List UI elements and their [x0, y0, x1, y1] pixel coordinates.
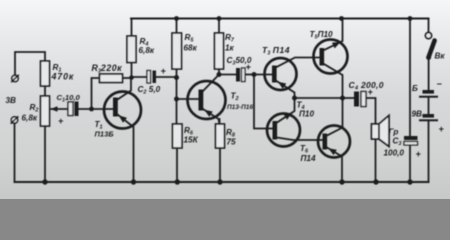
svg-text:15К: 15К	[184, 136, 199, 145]
svg-text:+: +	[439, 124, 445, 134]
svg-text:С4 200,0: С4 200,0	[349, 80, 384, 92]
svg-text:Гр: Гр	[389, 128, 399, 137]
svg-text:R3220к: R3220к	[92, 63, 123, 75]
svg-text:3В: 3В	[6, 96, 17, 105]
svg-text:−: −	[437, 79, 443, 89]
svg-text:+: +	[416, 149, 422, 159]
svg-text:+: +	[58, 116, 64, 126]
svg-text:П10: П10	[299, 110, 314, 119]
svg-text:+: +	[161, 66, 167, 76]
svg-text:6,8к: 6,8к	[139, 46, 155, 55]
svg-text:9В: 9В	[412, 110, 423, 119]
svg-text:Т5П10: Т5П10	[310, 30, 334, 41]
svg-text:+: +	[246, 62, 252, 72]
svg-text:+: +	[368, 87, 374, 97]
svg-text:75: 75	[227, 138, 237, 147]
svg-text:1к: 1к	[225, 44, 235, 53]
svg-text:Б: Б	[412, 84, 418, 93]
svg-text:П13Б: П13Б	[95, 130, 115, 139]
svg-text:Вк: Вк	[435, 52, 446, 61]
svg-text:100,0: 100,0	[384, 149, 405, 158]
svg-text:Т3П14: Т3П14	[262, 45, 290, 57]
svg-text:68к: 68к	[184, 44, 198, 53]
svg-text:С110,0: С110,0	[57, 93, 81, 104]
svg-text:П14: П14	[301, 154, 316, 163]
svg-text:6,8к: 6,8к	[22, 114, 38, 123]
svg-text:П13-П16: П13-П16	[227, 104, 253, 111]
svg-text:470к: 470к	[51, 72, 75, 82]
svg-text:С2 5,0: С2 5,0	[138, 85, 161, 96]
